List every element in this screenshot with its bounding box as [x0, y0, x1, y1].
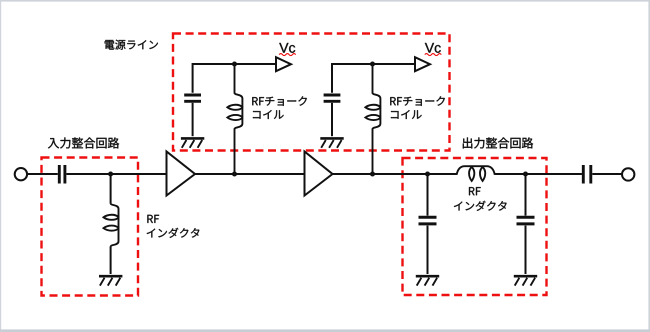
wire C1 to amplifier A1: [66, 173, 165, 175]
inductor RF choke coil 1: [227, 64, 242, 174]
inductor RF choke coil 2: [365, 64, 380, 174]
capacitor C4 output coupling: [583, 165, 591, 184]
label 出力整合回路 (output matching circuit): [463, 137, 533, 148]
capacitor C1 input coupling: [59, 165, 65, 184]
wire A1 to A2: [196, 173, 304, 175]
ground (input matching): [99, 276, 122, 285]
label コイル (choke 2 line 2): [391, 110, 422, 119]
Vc squiggle underline 1: [279, 54, 295, 56]
label コイル (choke 1 line 2): [253, 110, 284, 119]
capacitor C5 output shunt: [517, 217, 535, 224]
label RFチョーク (choke 1 line 1): [252, 96, 307, 105]
ground (power block 1): [181, 138, 204, 147]
node junction output shunt C3: [425, 172, 430, 177]
node junction interstage (choke 1 feed): [232, 172, 237, 177]
label インダクタ (input inductor line 2): [147, 228, 200, 238]
ground (under C5): [514, 276, 537, 285]
wire junction down to L1: [110, 174, 112, 203]
wire bypass C to ground (block 1): [192, 103, 194, 136]
node junction input shunt branch: [108, 172, 113, 177]
label インダクタ (output inductor line 2): [454, 201, 507, 211]
capacitor C3 output shunt: [419, 217, 437, 224]
ground (power block 2): [320, 138, 343, 147]
node junction output (choke 2 feed): [370, 172, 375, 177]
label 入力整合回路 (input matching circuit): [48, 137, 119, 148]
amplifier A2: [305, 152, 333, 196]
ground (under C3): [416, 276, 439, 285]
capacitor bypass C (block 2): [324, 95, 341, 101]
node 出力整合回路 output matching region box: [403, 158, 547, 295]
wire C3 to ground: [427, 226, 429, 274]
Vc supply arrow terminal 1: [276, 57, 291, 71]
wire C5 to ground: [525, 226, 527, 274]
wire junction down to C5: [525, 174, 527, 216]
label RFチョーク (choke 2 line 1): [390, 96, 445, 105]
node junction choke 1 on power rail: [232, 62, 237, 67]
node junction output shunt C5: [523, 172, 528, 177]
label RF (output inductor line 1): [469, 187, 481, 195]
node 入力整合回路 input matching region box: [42, 158, 139, 296]
wire power rail block 2 (corner to arrow base): [332, 64, 415, 93]
label 電源ライン (power line): [105, 40, 158, 50]
wire L2 to C4: [495, 173, 582, 175]
inductor L1 RF inductor (input shunt): [104, 203, 119, 247]
net label Vc text 1: [279, 43, 295, 53]
wire power rail block 1 (corner to arrow base): [193, 64, 276, 93]
node 電源ライン power-supply region box: [173, 34, 450, 151]
node junction choke 2 on power rail: [370, 62, 375, 67]
amplifier A1: [167, 152, 196, 196]
label RF (input inductor line 1): [147, 215, 159, 223]
input terminal: [15, 168, 27, 180]
wire junction down to C3: [427, 174, 429, 216]
Vc squiggle underline 2: [425, 54, 441, 56]
net label Vc text 2: [425, 43, 441, 53]
wire bypass C to ground (block 2): [331, 103, 333, 136]
inductor L2 RF inductor (output series): [457, 166, 495, 181]
wire L1 to ground: [110, 247, 112, 274]
wire C4 to output terminal: [592, 173, 622, 175]
wire A2 to L2: [333, 173, 457, 175]
capacitor bypass C (block 1): [184, 95, 201, 101]
Vc supply arrow terminal 2: [415, 57, 430, 71]
wire input terminal to C1: [27, 173, 58, 175]
output terminal: [622, 168, 634, 180]
